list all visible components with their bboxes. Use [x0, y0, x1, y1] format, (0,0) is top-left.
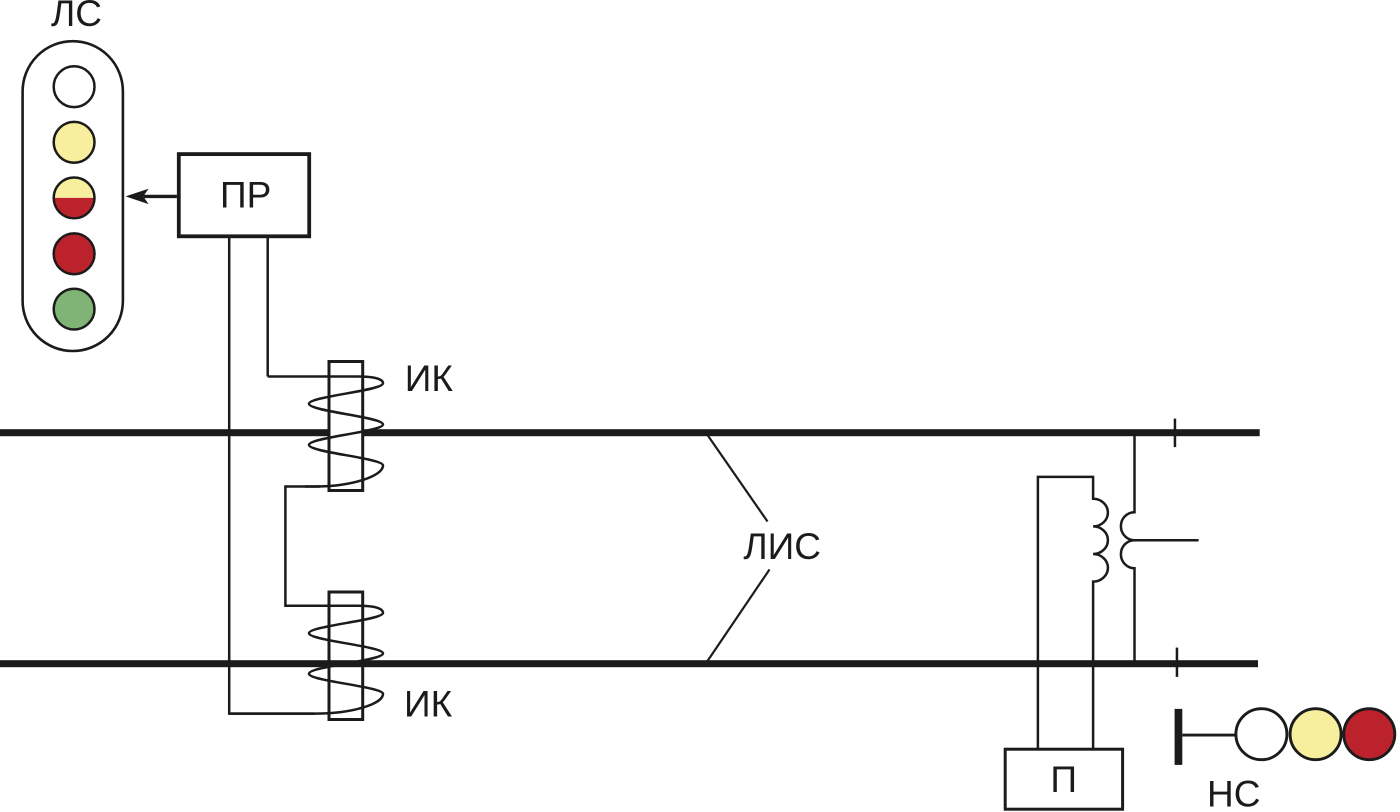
svg-text:ЛИС: ЛИС — [743, 526, 821, 567]
svg-text:ЛС: ЛС — [51, 0, 102, 34]
svg-text:ПР: ПР — [220, 175, 271, 216]
ЛС lens 1 (white) — [54, 66, 95, 107]
arrow from ПР to locomotive signal — [144, 195, 177, 198]
svg-text:ИК: ИК — [404, 684, 453, 725]
dwarf signal НС bracket wire — [1182, 734, 1236, 737]
rail 2 (bottom) — [0, 660, 1258, 667]
inductor coil ИК2 (bottom) body — [329, 592, 363, 720]
svg-text:П: П — [1050, 759, 1077, 800]
svg-text:ИК: ИК — [405, 358, 454, 399]
ЛС lens 4 (red) — [54, 233, 95, 274]
ЛС lens 2 (yellow) — [54, 122, 95, 163]
wire: ПР right lead down to coil ИК1 top terminal — [266, 238, 269, 377]
НС lens 2 (yellow) — [1290, 709, 1341, 760]
locomotive signal ЛС head — [23, 41, 123, 351]
ЛС lens 3 (yellow over red) — [54, 178, 95, 198]
dwarf signal НС mast — [1175, 709, 1183, 765]
ЛС lens 5 (green) — [54, 289, 95, 330]
transmitter box П — [1005, 749, 1122, 809]
coil ИК2 winding helix — [229, 606, 383, 714]
НС lens 1 (white) — [1236, 709, 1287, 760]
insulated joint on rail 1 — [1174, 419, 1177, 448]
callout line to rail 1 (ЛИС) — [707, 434, 768, 522]
transformer primary winding (left) — [1038, 477, 1108, 749]
wire: link from coil ИК1 bottom terminal to coil ИК2 top terminal — [285, 487, 320, 606]
wire: ПР left lead down to coil ИК2 bottom terminal — [229, 238, 315, 714]
coil ИК1 winding helix — [268, 377, 383, 487]
insulated joint on rail 2 — [1176, 648, 1179, 677]
inductor coil ИК1 (top) body — [329, 362, 363, 491]
wire: secondary middle tap — [1133, 539, 1199, 542]
svg-text:НС: НС — [1207, 773, 1260, 812]
rail 1 (top) — [0, 429, 1260, 436]
НС lens 3 (red) — [1344, 709, 1395, 760]
callout line to rail 2 (ЛИС) — [708, 570, 770, 662]
receiver box ПР — [179, 154, 309, 236]
transformer secondary winding (right) — [1121, 433, 1135, 661]
